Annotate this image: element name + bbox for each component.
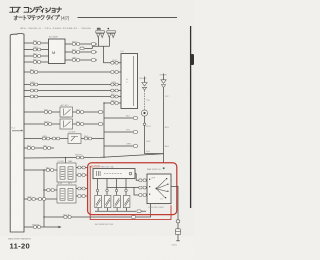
wire box1 top link — [65, 158, 67, 163]
switch top label — [147, 167, 165, 171]
connector C301 — [46, 167, 54, 171]
connector C214 — [126, 143, 137, 147]
relay RY2 — [60, 117, 73, 129]
wire branch2 — [104, 131, 133, 133]
connector C111 — [80, 47, 84, 50]
connector C210 — [27, 145, 35, 149]
connector C406 — [175, 229, 180, 235]
wire chain join — [145, 154, 164, 163]
highlight frame (red) — [88, 163, 177, 215]
connector C212 — [126, 115, 137, 119]
wire branch3 — [104, 145, 133, 147]
connector C305 — [78, 187, 85, 190]
wire U1 pin4 — [24, 61, 49, 63]
connector C211 — [43, 145, 51, 149]
wire U1 out2 — [65, 51, 97, 53]
wire branch1 — [104, 117, 133, 119]
connector below sensor — [143, 123, 146, 125]
leg sleeve 4 — [125, 189, 127, 191]
connector C405 — [176, 220, 180, 223]
connector C310 — [131, 216, 135, 219]
connector C116 — [111, 82, 118, 86]
wire RB1 leg3 — [116, 179, 118, 196]
node x44 bottom — [43, 216, 44, 217]
connector C117 — [30, 89, 37, 92]
wire resistor stubs — [98, 208, 127, 212]
wire bottom row1 — [24, 198, 57, 200]
wire switch to ground chain — [171, 186, 178, 240]
wire main feed — [24, 154, 164, 158]
wire panel in3 — [24, 90, 121, 92]
relay RY1 — [60, 104, 73, 117]
paper background — [0, 0, 194, 260]
resistor block RB1 — [93, 169, 135, 179]
node low feed — [133, 187, 134, 188]
node drop — [103, 102, 104, 103]
connector C309 — [63, 214, 71, 218]
arrow off-page — [58, 226, 61, 228]
page edge blob — [191, 54, 194, 65]
connector C108 — [91, 43, 95, 46]
wire bottom row3 — [24, 226, 58, 228]
sensor TH (in-car) — [141, 110, 147, 116]
wire bus to panel — [104, 46, 121, 63]
connector C201 — [44, 109, 52, 113]
node main-x104 — [103, 157, 104, 158]
wire U1 out1 — [65, 43, 97, 45]
red trace (blower power path) — [90, 166, 171, 220]
connector C203 — [98, 111, 102, 114]
wire panel in2 — [24, 84, 121, 86]
wire chain A upper — [144, 90, 146, 110]
connector C204 — [44, 121, 52, 125]
title: katakana "air conditioner" drawn strokes — [10, 6, 62, 12]
wire chain B — [163, 88, 165, 154]
wire stub row — [24, 147, 54, 149]
heater control panel U2 — [120, 51, 138, 108]
connector C303 — [78, 174, 85, 177]
connector C114 — [111, 71, 118, 74]
margin note E-2 — [12, 128, 23, 131]
connector C103 — [33, 53, 41, 57]
resistor R4 — [123, 195, 130, 207]
wire U1 out3 — [65, 59, 97, 61]
connector C209 — [84, 136, 92, 140]
connector C308 — [38, 198, 45, 201]
wire U1 pin3 — [24, 55, 49, 57]
connector C208 — [52, 137, 59, 140]
connector C402 — [139, 179, 147, 182]
wire panel pin feed — [104, 102, 121, 104]
connector C101 — [33, 40, 41, 44]
connector C115 — [30, 82, 38, 86]
wire bottom row2 — [44, 204, 151, 217]
node cross1 — [116, 187, 117, 188]
wire RB1 leg4 — [125, 179, 127, 196]
connector C311 — [32, 224, 41, 228]
connector C107 — [72, 57, 80, 61]
wire RY4 out2 — [76, 195, 88, 197]
relay box RY4 — [57, 183, 76, 203]
left harness connector outline — [10, 33, 24, 232]
title rule — [78, 17, 178, 19]
wire bottom bus — [95, 210, 136, 212]
wire RY4 left — [44, 189, 57, 191]
wire panel in4 — [24, 96, 121, 98]
connector C109 — [91, 51, 95, 54]
connector C113 — [30, 69, 38, 73]
connector C102 — [33, 47, 41, 51]
connector C206 — [98, 123, 102, 126]
resistor R3 — [114, 195, 121, 207]
wire row3 — [24, 138, 104, 140]
node box1 link — [65, 157, 66, 158]
wire cross bus — [107, 187, 139, 189]
leg sleeve 3 — [115, 189, 117, 191]
connector C207 — [42, 136, 50, 140]
connector C119 — [30, 95, 37, 98]
wire row1 — [24, 111, 103, 113]
subtitle strokes — [14, 15, 60, 20]
connector C306 — [78, 195, 85, 198]
wire U1 pin1 — [24, 42, 49, 44]
connector C403 — [139, 186, 147, 189]
ground G401 — [172, 241, 180, 247]
connector C307 — [28, 196, 36, 200]
connector C304 — [47, 189, 54, 192]
resistor R1 — [95, 195, 102, 207]
wire top feed to switch — [135, 174, 139, 181]
connector C302 — [78, 166, 85, 169]
wire low feed to switch — [134, 188, 139, 195]
resistor R2 — [104, 195, 111, 207]
fuse F1 — [96, 28, 109, 38]
wire panel in1 — [24, 71, 121, 73]
wire RY4 out1 — [76, 188, 88, 190]
connector C112 — [111, 60, 118, 64]
connector plug A — [142, 77, 147, 91]
relay box RY3 — [57, 160, 76, 182]
paper grain — [0, 0, 1, 1]
wire RB1 leg2 — [106, 179, 108, 196]
connector C105 — [72, 41, 80, 45]
connector C213 — [126, 129, 137, 133]
connector C110 — [91, 59, 95, 62]
leg sleeve 2 — [106, 189, 108, 191]
connector C404 — [139, 194, 147, 197]
connector C121 — [111, 101, 118, 105]
diode D1 — [68, 132, 81, 144]
wire box1 left — [24, 169, 57, 171]
connector C118 — [111, 89, 118, 92]
wire bus vertical x44 — [43, 170, 45, 227]
leg sleeve 1 — [96, 189, 98, 191]
op-amp U1 (A/C amplifier) — [49, 36, 66, 64]
connector C120 — [111, 94, 118, 98]
wire row2 — [24, 123, 103, 125]
node x44 mid — [43, 189, 44, 190]
wire RY3 out2 — [76, 174, 88, 176]
connector C401 — [137, 210, 146, 213]
wire chain A lower — [144, 116, 146, 154]
wire RY3 out1 — [76, 167, 88, 169]
wire fuse bus — [85, 38, 110, 49]
wire RB1 leg1 — [97, 179, 99, 196]
wire U1 pin2 — [24, 49, 49, 51]
fuse F2 — [107, 31, 116, 38]
connector C215 — [75, 155, 84, 159]
connector C202 — [76, 109, 84, 113]
page edge line (scan) — [190, 26, 192, 208]
connector plug B — [161, 74, 166, 88]
connector C104 — [33, 59, 41, 63]
wire vertical feed — [103, 103, 105, 158]
fan switch SW1 — [147, 174, 171, 204]
connector C106 — [72, 49, 80, 53]
connector C205 — [76, 121, 84, 125]
node x44 top — [43, 169, 44, 170]
node cross2 — [125, 187, 126, 188]
